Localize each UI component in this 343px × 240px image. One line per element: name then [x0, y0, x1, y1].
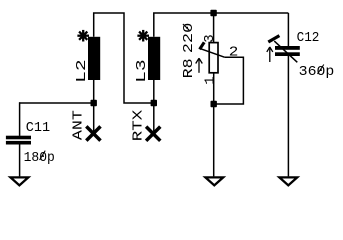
- svg-text:180p: 180p: [24, 150, 55, 166]
- polarity asterisk L3: [137, 30, 149, 42]
- label 180p: [24, 150, 55, 166]
- svg-text:R8: R8: [181, 58, 197, 78]
- inductor L3: [148, 37, 160, 80]
- ground under R8: [205, 177, 223, 185]
- label 220 (rotated): [181, 23, 197, 54]
- C12 trimmer diagonal arrow: [274, 41, 297, 62]
- terminal X RTX: [146, 127, 160, 141]
- wire R8 pin1 down: [213, 73, 215, 104]
- wire top rail to C12: [287, 13, 289, 46]
- wire top junction down to R8 pin3: [213, 13, 215, 42]
- trimmer resistor R8 body: [209, 43, 218, 73]
- wire bottom junction to ground: [213, 104, 215, 176]
- svg-text:L3: L3: [134, 59, 150, 83]
- wire C12 bottom to ground: [287, 56, 289, 176]
- wire C11 bottom to ground: [19, 145, 21, 177]
- terminal X ANT: [86, 126, 100, 140]
- svg-text:220: 220: [181, 23, 197, 54]
- R8 wiper arrowhead barb: [200, 42, 205, 49]
- wire L3 top to top rail: [154, 13, 289, 37]
- node RTX junction dot: [151, 100, 157, 106]
- svg-text:2: 2: [229, 45, 239, 61]
- svg-text:RTX: RTX: [131, 109, 147, 141]
- ground under C11: [11, 177, 29, 185]
- svg-text:360p: 360p: [299, 64, 335, 80]
- capacitor C11: [6, 136, 31, 145]
- wire ANT junction down to terminal: [93, 103, 95, 131]
- svg-text:ANT: ANT: [70, 110, 86, 140]
- wire RTX junction down to terminal: [153, 103, 155, 131]
- wire R8 pin2 loop to bottom junction: [214, 57, 244, 104]
- node ANT junction dot: [91, 100, 97, 106]
- label 360p: [299, 64, 335, 80]
- wire L3 bottom to RTX junction: [153, 80, 155, 103]
- C12 arrow barb: [268, 36, 279, 42]
- node top junction dot: [210, 10, 216, 16]
- polarity asterisk L2: [77, 30, 89, 42]
- ground under C12: [279, 177, 297, 185]
- svg-text:3: 3: [202, 34, 218, 42]
- node R8 bottom junction dot: [211, 101, 217, 107]
- R8 wiper diagonal: [199, 48, 224, 57]
- wire L2 top up-right-down to RTX junction: [94, 13, 154, 103]
- svg-text:C12: C12: [297, 30, 320, 46]
- C12 adjust up-arrow: [267, 47, 273, 62]
- svg-text:C11: C11: [26, 120, 50, 136]
- inductor L2: [88, 37, 100, 80]
- trimmer capacitor C12: [275, 46, 300, 56]
- wire L2 bottom to ANT junction: [93, 80, 95, 103]
- R8 adjust up-arrow: [196, 58, 203, 73]
- svg-text:1: 1: [202, 76, 218, 84]
- svg-text:L2: L2: [74, 59, 90, 83]
- wire C11 vertical: [19, 102, 21, 136]
- wire C11 top to ANT junction (horizontal): [19, 102, 94, 104]
